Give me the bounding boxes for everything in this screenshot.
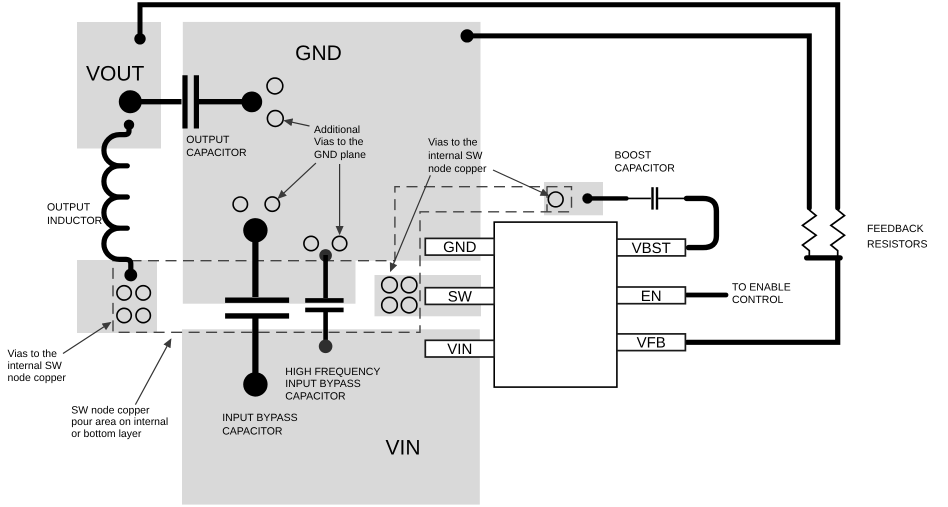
op-amp U1 IC body xyxy=(494,222,617,387)
wire EN pin to enable control xyxy=(687,293,726,298)
SW node copper strip (at SW pin) xyxy=(375,275,482,316)
svg-text:TO ENABLE: TO ENABLE xyxy=(732,281,791,293)
svg-text:node copper: node copper xyxy=(8,372,67,384)
capacitor input bypass plate 1 xyxy=(225,298,289,303)
svg-text:pour area on internal: pour area on internal xyxy=(71,416,168,428)
svg-text:INPUT BYPASS: INPUT BYPASS xyxy=(222,412,297,424)
arrow additional vias to via D xyxy=(339,164,341,234)
svg-text:VIN: VIN xyxy=(385,436,420,459)
svg-text:BOOST: BOOST xyxy=(615,149,652,161)
svg-text:GND: GND xyxy=(443,239,477,256)
via SW right cluster 4 xyxy=(401,297,417,313)
via GND plane D xyxy=(332,236,346,250)
via SW left cluster 2 xyxy=(136,286,150,300)
svg-text:SW node copper: SW node copper xyxy=(71,404,150,416)
via boost SW node xyxy=(548,192,563,207)
via GND plane C xyxy=(304,236,318,250)
via SW right cluster 3 xyxy=(382,297,398,313)
wire input bypass capacitor bottom xyxy=(252,318,258,384)
svg-text:or bottom layer: or bottom layer xyxy=(71,428,142,440)
svg-text:EN: EN xyxy=(641,288,662,305)
via near output capacitor 1 xyxy=(267,78,283,94)
svg-text:VBST: VBST xyxy=(632,240,671,257)
svg-text:GND: GND xyxy=(295,42,342,65)
wire HF bypass capacitor top xyxy=(323,255,328,298)
svg-text:CONTROL: CONTROL xyxy=(732,294,783,306)
arrow left vias label to SW copper xyxy=(63,323,111,354)
wire VOUT to feedback resistor R2 (top outer) xyxy=(140,5,838,208)
GND copper plane xyxy=(183,22,481,261)
via SW right cluster 1 xyxy=(382,277,398,293)
node VOUT via dot xyxy=(134,33,145,44)
pin EN box xyxy=(617,287,686,304)
svg-text:CAPACITOR: CAPACITOR xyxy=(222,425,283,437)
svg-text:node copper: node copper xyxy=(428,163,487,175)
wire GND to feedback resistor R1 (inner) xyxy=(467,36,809,208)
pin SW box xyxy=(425,288,494,305)
svg-text:VFB: VFB xyxy=(637,335,666,352)
svg-text:CAPACITOR: CAPACITOR xyxy=(615,162,676,174)
boost via copper pad xyxy=(544,182,603,215)
wire feedback node to VFB pin xyxy=(687,258,838,342)
svg-text:FEEDBACK: FEEDBACK xyxy=(867,223,924,235)
via GND plane A xyxy=(233,197,247,211)
wire HF bypass capacitor bottom xyxy=(323,312,328,344)
svg-text:GND plane: GND plane xyxy=(314,149,366,161)
svg-text:OUTPUT: OUTPUT xyxy=(47,201,91,213)
node inductor top dot xyxy=(124,120,134,130)
svg-text:Vias to the: Vias to the xyxy=(428,137,478,149)
capacitor boost plate 2 xyxy=(656,187,658,209)
inductor cusp tick 2 xyxy=(120,194,128,199)
wire boost via to boost capacitor xyxy=(589,196,627,200)
pin VBST box xyxy=(617,239,686,256)
SW node copper dashed outline xyxy=(113,187,572,333)
svg-text:HIGH FREQUENCY: HIGH FREQUENCY xyxy=(285,366,380,378)
arrow SW node copper label to dashed area xyxy=(135,339,170,404)
svg-text:CAPACITOR: CAPACITOR xyxy=(285,391,346,403)
wire VOUT to output capacitor xyxy=(130,99,182,104)
wire thin to boost capacitor xyxy=(627,197,651,199)
inductor cusp tick 1 xyxy=(120,163,128,168)
svg-text:RESISTORS: RESISTORS xyxy=(867,238,928,250)
svg-text:Vias to the: Vias to the xyxy=(8,348,58,360)
arrow additional vias to via B xyxy=(278,163,316,198)
pin VFB box xyxy=(617,334,686,351)
via SW left cluster 3 xyxy=(117,308,131,322)
capacitor input bypass plate 2 xyxy=(225,313,289,318)
node HF bypass capacitor top dot xyxy=(319,249,332,262)
arrow vias label to boost via xyxy=(493,170,549,196)
capacitor output plate 2 xyxy=(194,75,199,128)
svg-text:VIN: VIN xyxy=(447,341,472,358)
capacitor HF bypass plate 1 xyxy=(305,298,343,303)
capacitor boost plate 1 xyxy=(651,187,653,209)
svg-text:internal SW: internal SW xyxy=(8,360,62,372)
node input bypass capacitor top dot xyxy=(243,218,267,242)
pin VIN box xyxy=(425,340,494,357)
wire feedback divider junction xyxy=(807,255,841,260)
resistor R2 (feedback, right) xyxy=(831,210,845,256)
svg-text:OUTPUT: OUTPUT xyxy=(186,134,230,146)
svg-text:CAPACITOR: CAPACITOR xyxy=(186,147,247,159)
svg-text:Vias to the: Vias to the xyxy=(314,136,364,148)
via near output capacitor 2 xyxy=(267,111,283,127)
inductor cusp tick 3 xyxy=(120,226,128,231)
svg-text:internal SW: internal SW xyxy=(428,150,482,162)
via SW left cluster 4 xyxy=(136,308,150,322)
svg-text:VOUT: VOUT xyxy=(86,62,145,85)
arrow additional vias to via 2 xyxy=(285,121,310,126)
via SW left cluster 1 xyxy=(117,286,131,300)
VOUT copper plane xyxy=(77,22,161,149)
node inductor bottom dot xyxy=(124,269,137,282)
svg-text:Additional: Additional xyxy=(314,124,360,136)
svg-text:INDUCTOR: INDUCTOR xyxy=(47,215,103,227)
resistor R1 (feedback, left) xyxy=(803,210,817,256)
via SW right cluster 2 xyxy=(401,277,417,293)
via GND plane B xyxy=(265,197,279,211)
node output capacitor left dot xyxy=(119,90,142,113)
node output capacitor right dot xyxy=(241,92,262,113)
dashed edge of boost via box xyxy=(546,187,548,212)
VIN copper plane xyxy=(182,329,480,504)
SW node copper area (left, with vias) xyxy=(77,260,157,333)
svg-text:SW: SW xyxy=(448,289,473,306)
wire boost capacitor to VBST pin xyxy=(687,198,717,247)
node HF bypass capacitor bottom dot xyxy=(319,340,333,354)
arrow vias label to SW right cluster xyxy=(391,175,431,271)
GND plane lower extension xyxy=(183,261,356,304)
inductor L1 (output inductor) xyxy=(104,127,131,271)
node GND via dot xyxy=(461,29,474,42)
capacitor output plate 1 xyxy=(182,75,187,128)
node input bypass capacitor bottom dot xyxy=(243,372,267,396)
svg-text:INPUT BYPASS: INPUT BYPASS xyxy=(285,378,360,390)
node boost via dot xyxy=(582,193,592,203)
wire input bypass capacitor top xyxy=(252,230,258,297)
pin GND box xyxy=(425,238,494,255)
capacitor HF bypass plate 2 xyxy=(305,308,343,313)
wire output capacitor to GND xyxy=(199,99,252,104)
wire thin from boost capacitor xyxy=(658,197,686,199)
